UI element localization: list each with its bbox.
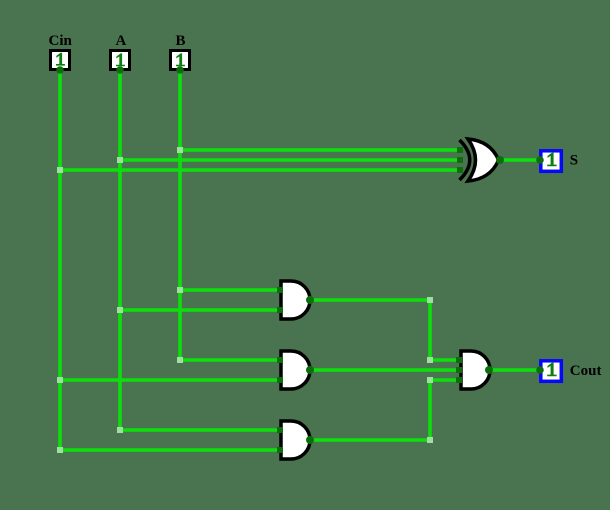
label Cin	[49, 33, 73, 49]
svg-text:Cout: Cout	[570, 363, 602, 379]
junction Cin corner to AND3	[57, 447, 63, 453]
wire A to AND3 top input	[120, 428, 282, 432]
port AND3 input bottom	[277, 447, 283, 453]
wire B to AND1 top input	[180, 288, 282, 292]
port AND3 output	[306, 436, 314, 444]
port OR1 output	[485, 366, 493, 374]
label S	[570, 153, 578, 169]
input pin Cin	[51, 51, 70, 70]
gate AND1 (A AND B)	[281, 281, 310, 319]
junction B to XOR line	[177, 147, 183, 153]
port AND1 input top	[277, 287, 283, 293]
label B	[176, 33, 186, 49]
port AND3 input top	[277, 427, 283, 433]
port OR1 input bottom	[456, 377, 462, 383]
port AND1 output	[306, 296, 314, 304]
wire B to AND2 top input	[180, 358, 282, 362]
wire B vertical	[178, 70, 182, 360]
wire stub to OR top input	[430, 358, 461, 362]
junction at OR top stub corner	[427, 357, 433, 363]
junction A corner to AND3	[117, 427, 123, 433]
svg-text:A: A	[116, 33, 127, 49]
wire B to XOR top input	[180, 148, 461, 152]
output pin S	[541, 151, 562, 172]
port AND2 output	[306, 366, 314, 374]
port XOR input 2	[457, 157, 463, 163]
junction B corner to AND2	[177, 357, 183, 363]
port AND2 input bottom	[277, 377, 283, 383]
svg-text:S: S	[570, 153, 578, 169]
wire vertical from AND3 corner up	[428, 380, 432, 440]
port OR1 input top	[456, 357, 462, 363]
gate OR1 output stage	[461, 351, 490, 389]
wire XOR output to S pin	[499, 158, 540, 162]
port XOR input 1	[457, 147, 463, 153]
port pin S	[536, 156, 544, 164]
wire A vertical	[118, 70, 122, 430]
port XOR input 3	[457, 167, 463, 173]
junction A to AND1 line	[117, 307, 123, 313]
label Cout	[570, 363, 602, 379]
svg-text:B: B	[176, 33, 186, 49]
wire AND2 output to OR middle input	[310, 368, 461, 372]
junction AND1 output corner	[427, 297, 433, 303]
port pin A	[116, 66, 124, 74]
port pin Cout	[536, 366, 544, 374]
junction Cin to XOR line	[57, 167, 63, 173]
junction A to XOR line	[117, 157, 123, 163]
wire vertical from AND1 corner down	[428, 300, 432, 360]
wire AND3 output horizontal	[310, 438, 430, 442]
wire stub to OR bottom input	[430, 378, 461, 382]
port OR1 input middle	[456, 367, 462, 373]
wire Cin to AND2 bottom input	[60, 378, 282, 382]
wire AND1 output horizontal	[310, 298, 430, 302]
svg-text:Cin: Cin	[49, 33, 73, 49]
gate AND2 (B AND Cin)	[281, 351, 310, 389]
port AND1 input bottom	[277, 307, 283, 313]
gate XOR1 sum	[460, 139, 499, 181]
junction Cin to AND2 line	[57, 377, 63, 383]
input pin A	[111, 51, 130, 70]
junction AND3 output corner	[427, 437, 433, 443]
port pin Cin	[56, 66, 64, 74]
gate AND3 (A AND Cin)	[281, 421, 310, 459]
port pin B	[176, 66, 184, 74]
wire Cin to AND3 bottom input	[60, 448, 282, 452]
port XOR output	[496, 156, 504, 164]
wire A to AND1 bottom input	[120, 308, 282, 312]
wire OR output to Cout pin	[489, 368, 540, 372]
output pin Cout	[541, 361, 562, 382]
port AND2 input top	[277, 357, 283, 363]
wire Cin to XOR bottom input	[60, 168, 461, 172]
wire A to XOR middle input	[120, 158, 461, 162]
label A	[116, 33, 127, 49]
input pin B	[171, 51, 190, 70]
junction B to AND1 line	[177, 287, 183, 293]
wire Cin vertical	[58, 70, 62, 450]
junction at OR bottom stub corner	[427, 377, 433, 383]
